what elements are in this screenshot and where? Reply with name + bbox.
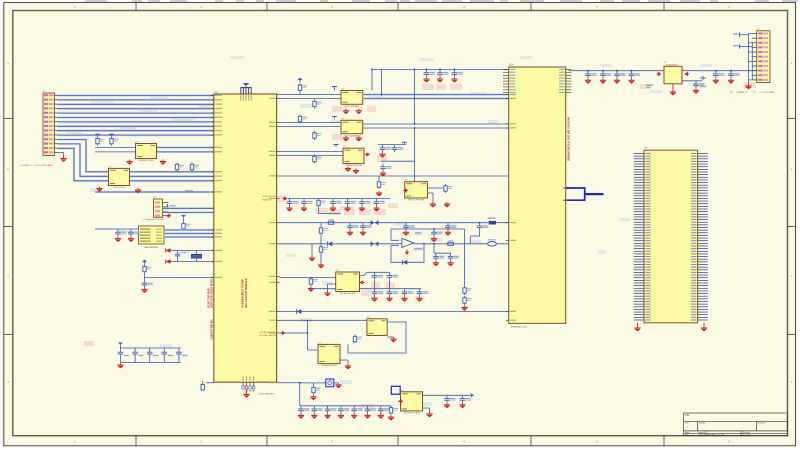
ground [324, 291, 330, 296]
resistor R? [389, 406, 398, 415]
resistor [328, 219, 334, 224]
diode [403, 260, 408, 265]
svg-text:← +•V P••POWER: ← +•V P••POWER [756, 92, 775, 94]
power arrow [166, 214, 171, 218]
highlight patches [66, 56, 756, 408]
capacitor C44 [351, 406, 363, 414]
power arrow [365, 152, 370, 156]
diode [328, 241, 333, 246]
capacitor C? [175, 251, 186, 262]
ground [135, 188, 141, 193]
wire [740, 45, 753, 47]
capacitor C10 [424, 70, 436, 78]
capacitor C19 [359, 199, 371, 207]
inductor L? [488, 239, 497, 246]
feedback wire lower [391, 244, 424, 262]
capacitor C? [372, 289, 384, 297]
wire [740, 34, 749, 36]
capacitor C41 [312, 406, 324, 414]
ground [430, 202, 436, 207]
capacitor C? [585, 71, 597, 79]
capacitor C45 [365, 406, 377, 414]
ground [117, 363, 123, 368]
wire [569, 70, 664, 72]
power VCC arrow [471, 393, 474, 397]
wire [320, 235, 322, 245]
wire [166, 261, 214, 263]
wire [423, 394, 471, 396]
wire [360, 288, 422, 290]
svg-text:EPF6016TC144: EPF6016TC144 [511, 327, 527, 329]
ground under U3 left [637, 323, 639, 326]
capacitor C? [460, 395, 472, 403]
capacitor C31 [132, 348, 144, 363]
wire [311, 244, 313, 256]
wire [334, 87, 336, 91]
wire [387, 336, 393, 338]
svg-text:74LVC2G14: 74LVC2G14 [113, 187, 126, 189]
wire bend to caps [360, 272, 390, 275]
transient suppressor diode [371, 241, 379, 246]
wire [121, 347, 182, 349]
ground [356, 136, 362, 141]
IC U? supervisor [139, 226, 165, 249]
power VDD [118, 343, 123, 349]
ground under U3 right [703, 323, 705, 326]
IC U? regulator XC6204 [664, 62, 682, 84]
wire [95, 191, 214, 193]
capacitor C? [713, 71, 725, 79]
capacitor C46 [378, 406, 390, 414]
net label box [391, 386, 400, 394]
capacitor C? [693, 81, 705, 89]
capacitor C? [431, 229, 443, 237]
wire [307, 320, 318, 350]
title block text [685, 414, 765, 437]
wire [163, 211, 214, 213]
svg-text:U1A: U1A [509, 64, 514, 67]
wire [288, 198, 391, 200]
capacitor C? [387, 272, 399, 280]
net wire thick [585, 193, 604, 195]
resistor R? [444, 184, 453, 193]
resistor R? [313, 131, 322, 140]
capacitor C17 [330, 199, 342, 207]
svg-text:SN74LVC1G08: SN74LVC1G08 [139, 160, 155, 162]
capacitor C20 [374, 199, 386, 207]
power arrow [403, 188, 408, 192]
wire [95, 147, 136, 149]
capacitor [115, 229, 127, 237]
power VDD for U2 [240, 83, 251, 88]
title block [684, 413, 788, 436]
svg-text:OSCIN VDDSYN: OSCIN VDDSYN [260, 332, 276, 334]
ground [745, 84, 751, 89]
IC U1A FPGA [509, 64, 566, 329]
power VCC tick [168, 204, 176, 208]
capacitor C? [444, 395, 456, 403]
IC U3 SDRAM [644, 148, 698, 323]
capacitor C43 [338, 406, 350, 414]
resistor [448, 240, 454, 245]
svg-text:VSSA-PLL•: VSSA-PLL• [262, 198, 272, 201]
wire [334, 382, 339, 384]
wire [145, 277, 214, 279]
wire [363, 94, 509, 96]
capacitor C32 [147, 348, 159, 363]
power arrow into OSC pin [283, 196, 288, 200]
transient suppressor diode [371, 220, 379, 225]
resistor R? [317, 199, 326, 208]
wire [58, 140, 109, 172]
capacitor C12 [452, 70, 464, 78]
wire [414, 128, 416, 182]
wire [348, 322, 406, 353]
wire [428, 187, 444, 189]
wire [280, 98, 342, 100]
wire [328, 284, 337, 291]
IC U? [341, 118, 363, 137]
resistor R? [353, 335, 362, 344]
svg-text:—• 2.54mm•••CTT•P•GP•: —• 2.54mm•••CTT•P•GP• [142, 219, 165, 221]
capacitor C33 [162, 348, 174, 363]
power VCC [334, 145, 339, 148]
power VCC [733, 44, 740, 48]
capacitor C? [614, 71, 626, 79]
wire [340, 359, 348, 361]
wire [157, 147, 214, 149]
wire [682, 70, 757, 72]
svg-text:Drawn By:: Drawn By: [743, 433, 752, 436]
ground [126, 160, 132, 165]
svg-text:XFC CLKOUT MODCLK: XFC CLKOUT MODCLK [244, 278, 248, 308]
power arrow [398, 399, 403, 403]
wire halos [164, 230, 214, 237]
wire [280, 155, 344, 157]
power arrow [281, 331, 286, 335]
wire [58, 148, 109, 181]
resistor R? [298, 83, 307, 92]
wire [319, 208, 342, 214]
wire [381, 160, 415, 162]
resistor R? [190, 163, 199, 172]
resistor R? [313, 155, 322, 164]
ground [444, 202, 450, 207]
wire [280, 277, 337, 279]
svg-text:74LVC4245A•P•: 74LVC4245A•P• [344, 105, 360, 108]
power VCC [332, 117, 337, 120]
wire [299, 383, 301, 406]
ground [343, 109, 349, 114]
power VCC [332, 87, 337, 90]
power VCC [109, 134, 114, 137]
wire [95, 228, 139, 230]
svg-text:Revision: Revision [758, 423, 765, 425]
svg-text:~•• J706A 1-2 : +• P• OUTPUT•M: ~•• J706A 1-2 : +• P• OUTPUT•MCU [19, 164, 53, 167]
wire [183, 229, 185, 231]
U1A pin stubs for bracket [563, 187, 566, 189]
svg-text:XTAL/IN•M•: XTAL/IN•M• [244, 390, 255, 393]
svg-text:CT5•S•-2M•16FV: CT5•S•-2M•16FV [258, 394, 275, 396]
capacitor C42 [325, 406, 337, 414]
power VEE arrow [405, 250, 409, 256]
power arrow [684, 72, 689, 76]
power VDD [297, 78, 302, 83]
wire [130, 175, 214, 177]
crystal oscillator Y? [326, 379, 334, 387]
resistor R? [463, 286, 472, 295]
resistor R? [182, 222, 191, 231]
wire [310, 288, 336, 290]
wire [470, 230, 479, 244]
resistor R? at U2 bottom left [201, 381, 214, 390]
IC U? [109, 166, 130, 189]
resistor R? [463, 296, 472, 305]
IC U? [136, 142, 157, 163]
power VCC [733, 33, 740, 37]
ground [390, 337, 396, 342]
wire [95, 151, 136, 153]
capacitor C18 [345, 199, 357, 207]
wire [434, 252, 451, 254]
feedback wire upper [391, 229, 465, 240]
capacitor C? [387, 289, 399, 297]
capacitor C? [392, 145, 404, 153]
svg-text:CSBOOT BR BG: CSBOOT BR BG [209, 319, 213, 340]
power VCC [95, 134, 100, 137]
capacitor C? [445, 223, 457, 231]
wire [320, 223, 322, 226]
U3 pin rows [634, 153, 708, 321]
connector J2 [752, 29, 770, 83]
svg-text:← 2-WIRE I-O: ← 2-WIRE I-O [734, 92, 748, 94]
capacitor C30 [118, 348, 130, 363]
legend text [730, 91, 775, 94]
svg-text:SP•GLP•C••A•N: SP•GLP•C••A•N [404, 412, 420, 415]
wire [300, 405, 391, 407]
net label [185, 190, 193, 191]
svg-text:MAX708SESA: MAX708SESA [144, 246, 158, 249]
wire [428, 192, 434, 194]
capacitor C16 [301, 199, 313, 207]
ground [318, 263, 324, 268]
wire [58, 144, 109, 176]
power VCC [402, 142, 407, 145]
resistor R? [298, 115, 307, 124]
capacitor C? [417, 289, 429, 297]
wire [280, 382, 300, 384]
IC U? [318, 342, 340, 367]
capacitor C? [403, 223, 415, 231]
wire [363, 127, 509, 129]
capacitor C? near J2 [700, 76, 707, 87]
capacitor C? [477, 223, 489, 231]
svg-text:File:: File: [685, 434, 689, 436]
capacitor C? [600, 71, 612, 79]
svg-text:Size: Size [685, 423, 689, 425]
IC U2 MC68331 microcontroller [214, 92, 277, 382]
resistor R? [309, 277, 318, 286]
wire [280, 222, 509, 224]
ferrite bead L? [488, 218, 497, 225]
wire [130, 171, 214, 173]
bus wires J1 to U2 [58, 96, 214, 136]
resistor R? [313, 100, 322, 109]
top edge artifacts [85, 0, 798, 2]
svg-text:PCS0 TXD RXD: PCS0 TXD RXD [206, 288, 210, 308]
svg-text:Number: Number [699, 422, 706, 425]
ground [343, 136, 349, 141]
wire [130, 180, 214, 182]
ground [426, 412, 432, 417]
wire [389, 280, 391, 289]
capacitor C? [728, 71, 740, 79]
svg-text:SP•ACP•3••DN: SP•ACP•3••DN [340, 292, 355, 295]
wire [280, 126, 342, 128]
IC U? [336, 270, 360, 295]
capacitor C? [360, 223, 372, 231]
wire [320, 254, 322, 263]
wire [163, 207, 214, 209]
wire [363, 123, 509, 125]
svg-text:OSCIN VDDSYN: OSCIN VDDSYN [262, 196, 277, 198]
wire [157, 151, 214, 153]
capacitor [142, 280, 154, 288]
wire [433, 244, 435, 253]
capacitor C40 [298, 406, 310, 414]
connector J1 [43, 91, 58, 156]
U1A pin stubs [503, 69, 571, 321]
wire ladder to J2 [749, 34, 753, 85]
wire [414, 243, 509, 245]
capacitor C? [380, 145, 392, 153]
capacitor C? [380, 164, 392, 172]
wire [374, 280, 376, 289]
ground [335, 383, 341, 388]
svg-text:XCKSRW IRQ7 TSTME: XCKSRW IRQ7 TSTME [241, 279, 245, 308]
wire [280, 319, 367, 321]
wire [414, 70, 416, 125]
wire [280, 151, 344, 153]
resistor R? [110, 137, 119, 146]
regulator VIN label [646, 85, 653, 86]
wire [372, 69, 509, 71]
op-amp U? [402, 232, 424, 251]
wire [164, 233, 214, 235]
power arrow [360, 280, 365, 284]
ground [345, 167, 351, 172]
wire [371, 70, 373, 91]
capacitor C? [433, 253, 445, 261]
resistor R? [313, 383, 315, 386]
svg-text:SDRAM SDCLK CKE WE CAS RAS: SDRAM SDCLK CKE WE CAS RAS [567, 117, 571, 161]
capacitor C? [629, 71, 641, 79]
IC U? [343, 146, 364, 167]
IC U? [341, 89, 363, 108]
ground [160, 160, 166, 165]
resistor R? [377, 180, 386, 189]
wire [164, 229, 214, 231]
wire [280, 243, 402, 245]
capacitor C? [372, 272, 384, 280]
wire [280, 311, 509, 313]
diode [166, 248, 171, 252]
ground [345, 364, 351, 369]
wire [299, 92, 301, 94]
crystal Y? [192, 251, 202, 262]
capacitor [128, 229, 140, 237]
diode [297, 309, 302, 314]
wire [363, 98, 509, 100]
net label bracket U1A [566, 188, 584, 200]
wire [381, 70, 383, 95]
wire [682, 80, 702, 82]
capacitor C11 [437, 70, 449, 78]
capacitor C34 [176, 348, 188, 363]
resistor R? [143, 265, 152, 274]
IC U? [405, 180, 428, 202]
svg-text:D:\Protel99\MC68331-v1.1.ddb: D:\Protel99\MC68331-v1.1.ddb [698, 433, 724, 436]
wire [464, 229, 466, 286]
wire [280, 94, 342, 96]
diode [166, 259, 171, 263]
svg-text:SP•ACP•3••DN: SP•ACP•3••DN [322, 364, 337, 367]
ground for regulator [672, 84, 674, 90]
ground [96, 187, 102, 192]
connector J? [154, 197, 169, 217]
wire [144, 274, 146, 281]
U2 pin stubs and labels [211, 88, 280, 389]
wire [164, 236, 214, 238]
ground [356, 109, 362, 114]
wire halos [58, 140, 214, 193]
wire [121, 362, 182, 364]
resistor R? [319, 245, 328, 254]
wire [280, 122, 342, 124]
wire [300, 382, 326, 384]
wire [280, 332, 308, 334]
ground [353, 169, 359, 174]
wire [423, 407, 430, 409]
svg-text:Title: Title [685, 414, 690, 417]
ground at U2 bottom [246, 389, 248, 393]
svg-text:MC-GND_ADPCM: MC-GND_ADPCM [260, 334, 277, 337]
resistor R? [175, 163, 184, 172]
capacitor C? [448, 253, 460, 261]
wire with halo [363, 93, 509, 95]
capacitor C? [402, 289, 414, 297]
wire [166, 250, 214, 252]
wire with halo [163, 207, 214, 209]
power VDD [181, 215, 186, 222]
wire [58, 153, 64, 157]
power VDD [142, 259, 147, 264]
ground [60, 157, 66, 162]
wire [378, 144, 406, 146]
wire [280, 175, 509, 177]
power arrow [657, 72, 662, 76]
ground [376, 191, 382, 196]
svg-text:SP•LVCP•3••DN: SP•LVCP•3••DN [408, 200, 424, 202]
ground [309, 256, 315, 261]
IC U? [401, 390, 423, 415]
IC U? [367, 317, 387, 336]
capacitor C? [347, 223, 359, 231]
wire [378, 176, 380, 180]
resistor R? [319, 226, 328, 235]
capacitor C15 [287, 199, 299, 207]
